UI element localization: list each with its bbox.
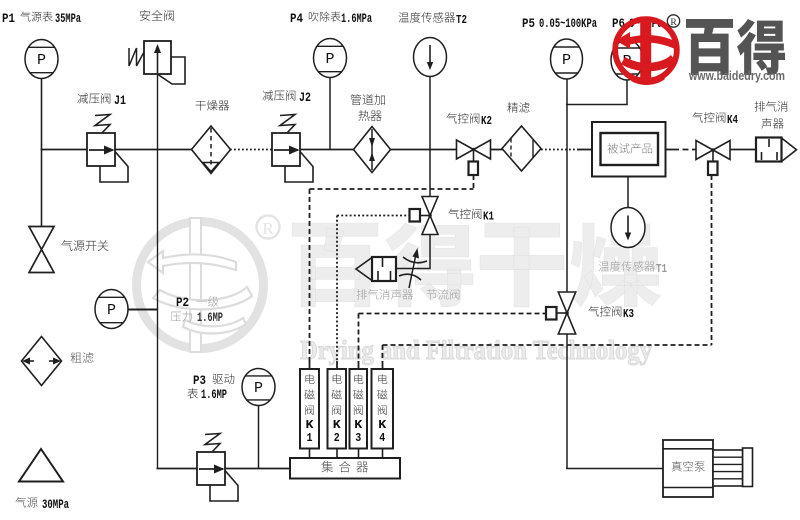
label air source 30MPa [15, 497, 26, 507]
valve K2 [457, 140, 474, 159]
svg-text:P1: P1 [2, 11, 15, 26]
label vacuum pump [672, 461, 682, 471]
gauge P1 [25, 40, 58, 79]
label K3 [588, 306, 599, 316]
wire control dashed K2-solenoid1 [473, 175, 475, 189]
svg-text:K3: K3 [623, 307, 634, 321]
wire P4 stem [329, 77, 331, 149]
filter coarse [22, 337, 62, 386]
wire P2 stub [128, 309, 158, 311]
svg-text:www.baidedry.com: www.baidedry.com [688, 69, 785, 83]
label exhaust muffler left [357, 289, 367, 299]
muffler right [756, 138, 782, 162]
vacuum pump [663, 440, 713, 497]
wire K3 down to pump [566, 334, 568, 469]
wire dotted filter to product [541, 149, 580, 151]
label exhaust muffler right [755, 101, 765, 111]
valve K4 [696, 141, 713, 160]
svg-text:P: P [254, 380, 263, 397]
wire P5-K3 vertical [566, 78, 568, 292]
label air-source switch [61, 240, 72, 251]
label J1 [78, 93, 89, 103]
wire solenoid bottom stubs [309, 449, 311, 459]
label fine filter [507, 102, 518, 112]
svg-text:T1: T1 [656, 262, 667, 276]
logo text baide [686, 19, 733, 75]
label K1 [448, 209, 459, 219]
svg-text:4: 4 [379, 432, 385, 445]
svg-text:P: P [37, 52, 46, 69]
svg-text:T2: T2 [456, 13, 467, 27]
muffler left [372, 257, 396, 281]
svg-text:1.6MP: 1.6MP [201, 387, 227, 402]
wire K4 to exhaust muffler [730, 149, 756, 151]
wire main horizontal line left section [42, 149, 193, 151]
filter fine [502, 126, 541, 171]
svg-text:1: 1 [307, 432, 313, 445]
svg-text:0.05~100KPa: 0.05~100KPa [539, 16, 597, 31]
valve K3 [558, 292, 575, 313]
svg-text:1.6MPa: 1.6MPa [341, 11, 372, 26]
label safety valve [140, 10, 150, 21]
valve reducer J1 [100, 152, 128, 183]
product under test box [592, 122, 666, 177]
svg-text:3: 3 [355, 432, 361, 445]
dryer [192, 126, 231, 174]
svg-text:P4: P4 [290, 11, 303, 26]
svg-text:35MPa: 35MPa [55, 11, 81, 26]
wire dotted dryer to J2 [230, 149, 276, 151]
wire through J2 to heater [274, 149, 355, 151]
svg-text:K: K [306, 418, 315, 432]
solenoid valve K3 box [350, 369, 368, 449]
label collector [321, 461, 333, 472]
svg-text:J2: J2 [299, 90, 311, 105]
svg-text:K: K [378, 418, 387, 432]
label product [607, 143, 618, 153]
svg-text:K: K [354, 418, 363, 432]
valve K1 [422, 197, 438, 216]
sensor T2 [414, 38, 447, 77]
wire solenoid top stubs [309, 361, 311, 369]
wire bottom drive line [157, 468, 291, 470]
label J2 [263, 90, 274, 100]
svg-text:J1: J1 [114, 93, 126, 108]
gauge P3 [242, 369, 275, 406]
svg-text:R: R [670, 18, 677, 28]
logo registered mark [667, 15, 679, 27]
svg-text:K2: K2 [481, 114, 492, 128]
gauge P4 [314, 39, 347, 78]
wire T2-K1 vertical [429, 76, 431, 197]
valve air-source switch [29, 227, 54, 250]
wire control dotted K1-solenoid2 [337, 215, 409, 217]
label K2 [446, 113, 457, 123]
svg-text:P5: P5 [522, 16, 535, 31]
gauge P2 [95, 290, 128, 329]
svg-text:P: P [562, 52, 571, 69]
svg-text:Drying and Filtration Technolo: Drying and Filtration Technology [300, 335, 652, 365]
wire K2 to fine filter [490, 149, 503, 151]
collector box [290, 458, 400, 479]
watermark registered mark [257, 216, 280, 239]
sensor T1 [611, 208, 645, 248]
gauge P6 [611, 40, 643, 80]
wire into product box [578, 149, 592, 151]
svg-text:R: R [262, 219, 274, 238]
heater [354, 127, 391, 173]
wire heater to K2 [390, 149, 457, 151]
label T2 [399, 12, 409, 22]
solenoid valve K4 box [372, 369, 394, 449]
watermark text 百得干燥 [292, 223, 661, 307]
svg-text:1.6MP: 1.6MP [197, 310, 223, 325]
wire product to sensor T1 [627, 177, 629, 208]
svg-text:P3: P3 [193, 373, 206, 388]
solenoid valve K1 box [300, 369, 319, 449]
svg-text:K4: K4 [727, 113, 738, 127]
wire control dashed K3-solenoid3 [359, 313, 547, 315]
label K4 [692, 112, 703, 122]
svg-text:P: P [107, 302, 116, 319]
wire P3 stem [258, 405, 260, 468]
air source triangle [19, 449, 63, 482]
label heater [351, 94, 362, 105]
wire safety valve vertical x157 [157, 46, 159, 468]
logo red circle [615, 17, 677, 85]
svg-text:P2: P2 [176, 295, 189, 310]
watermark logo circle [137, 218, 264, 352]
wire product to K4 dashed [666, 149, 673, 151]
throttle valve [403, 257, 427, 263]
wire main supply vertical from P1 [41, 78, 43, 227]
label throttle [427, 289, 437, 299]
label coarse filter [71, 352, 82, 363]
valve safety [158, 57, 185, 84]
svg-text:K: K [333, 418, 342, 432]
wire control dashed K4-solenoid4 [711, 175, 713, 345]
wire junction left main [41, 149, 43, 151]
valve reducer J2 [285, 152, 313, 183]
label T1 [599, 261, 609, 271]
svg-text:2: 2 [334, 432, 340, 445]
label dryer [196, 101, 206, 111]
wire K1 to throttle corner [429, 235, 431, 269]
gauge P5 [551, 39, 583, 79]
solenoid valve K2 box [328, 369, 347, 449]
svg-text:P: P [325, 51, 334, 68]
svg-text:30MPa: 30MPa [42, 497, 69, 512]
svg-text:K1: K1 [483, 210, 494, 224]
valve reducer drive [210, 471, 238, 502]
wire P6 elbow [626, 79, 628, 105]
